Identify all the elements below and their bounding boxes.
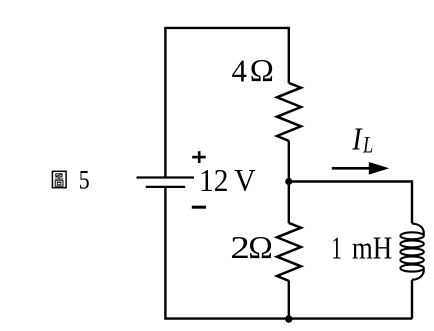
wire middle upper [288, 28, 290, 83]
svg-text:Ω: Ω [250, 53, 274, 87]
wire right upper [411, 182, 412, 224]
resistor R1 4 ohm zigzag [277, 83, 301, 141]
wire left lower [164, 187, 166, 319]
svg-text:2: 2 [230, 230, 250, 265]
battery V1 [137, 178, 195, 187]
wire middle horizontal [289, 180, 412, 182]
wire left upper [164, 28, 166, 178]
svg-text:mH: mH [352, 232, 392, 266]
svg-text:5: 5 [79, 166, 90, 196]
wire middle mid [288, 141, 290, 182]
svg-text:4: 4 [232, 53, 248, 88]
resistor R2 2 ohm zigzag [277, 223, 301, 281]
inductor L1 coil [400, 224, 423, 280]
node B dot [285, 315, 292, 322]
svg-text:1: 1 [331, 230, 341, 265]
battery plus sign [192, 151, 206, 163]
svg-text:L: L [362, 134, 373, 158]
battery short plate [146, 186, 185, 188]
wire right lower [411, 280, 413, 319]
wire top [165, 28, 288, 29]
node A dot [285, 178, 292, 185]
battery minus sign [192, 206, 206, 209]
svg-text:V: V [234, 163, 255, 198]
arrow head [369, 162, 390, 175]
svg-text:12: 12 [199, 163, 228, 198]
wire middle lower [288, 281, 290, 319]
battery long plate [137, 176, 195, 178]
svg-text:Ω: Ω [248, 230, 273, 265]
wire bottom [164, 317, 412, 319]
figure label glyph tu (CJK) [52, 171, 66, 187]
current arrow IL [332, 167, 371, 170]
wire node to 2 ohm [288, 182, 290, 224]
